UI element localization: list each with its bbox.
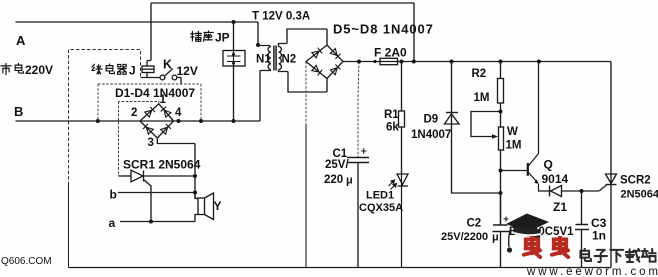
svg-text:R2: R2 — [472, 68, 487, 80]
svg-text:F 2A0: F 2A0 — [374, 46, 407, 60]
svg-text:μ: μ — [492, 232, 499, 244]
junction switch drop on line B — [199, 119, 203, 123]
svg-text:T 12V 0.3A: T 12V 0.3A — [252, 11, 310, 23]
junction at bridge node 4 — [177, 119, 181, 123]
wire mains line B — [16, 71, 272, 122]
svg-text:1n: 1n — [592, 229, 606, 243]
wire after switch K — [177, 78, 181, 84]
svg-text:1M: 1M — [474, 92, 490, 104]
junction rail R1 — [400, 60, 404, 64]
junction rail Q collector — [537, 60, 541, 64]
bridge rectifier D5-D8 diamond — [306, 45, 343, 79]
wire left drop to line B — [97, 84, 99, 121]
diode D3 bottom-left of bridge — [143, 124, 153, 134]
svg-text:25V/2200: 25V/2200 — [441, 231, 488, 243]
svg-text:a: a — [109, 216, 116, 230]
speaker Y — [195, 193, 214, 220]
svg-text:W: W — [507, 126, 518, 138]
diode D7 bottom-left of bridge2 — [312, 65, 322, 75]
ground rail — [69, 267, 612, 269]
bridge rectifier D1-D4 diamond — [140, 104, 174, 138]
svg-text:R1: R1 — [384, 109, 399, 121]
diode D9 — [445, 62, 501, 194]
svg-text:9014: 9014 — [542, 172, 569, 186]
resistor R2 — [498, 62, 504, 128]
wire node a line — [120, 215, 198, 222]
zener Z1 — [550, 185, 607, 197]
svg-text:μ: μ — [346, 175, 353, 187]
diode D6 top-right of bridge2 — [330, 48, 340, 58]
capacitor C3 — [575, 191, 589, 268]
svg-text:C2: C2 — [467, 218, 482, 230]
LED1 — [397, 174, 408, 268]
junction D9-C2 node — [499, 191, 503, 195]
watermark graduation cap — [506, 214, 549, 253]
wire node 3 to cathode rail — [157, 138, 195, 199]
wire N2 top to bridge2 — [279, 29, 328, 46]
junction socket drop on line B — [232, 119, 236, 123]
svg-text:Y: Y — [214, 199, 222, 213]
label relay J — [92, 64, 126, 74]
diode D4 bottom-right of bridge — [161, 124, 171, 134]
thyristor SCR2 — [606, 62, 617, 268]
junction rail C1 — [357, 60, 361, 64]
svg-text:LED1: LED1 — [366, 190, 394, 202]
svg-text:JP: JP — [215, 31, 230, 45]
svg-text:SCR1 2N5064: SCR1 2N5064 — [123, 158, 201, 172]
junction Q base node — [499, 169, 503, 173]
enclosure dashed box — [69, 50, 141, 268]
junction node a gate — [149, 220, 153, 224]
transistor Q — [528, 62, 550, 192]
junction rail top feed — [412, 60, 416, 64]
svg-text:CQX35A: CQX35A — [359, 202, 403, 214]
svg-text:D9: D9 — [424, 114, 439, 126]
svg-text:1M: 1M — [506, 140, 522, 152]
svg-text:K: K — [163, 58, 172, 72]
svg-text:2: 2 — [131, 107, 137, 119]
svg-text:Q: Q — [544, 158, 553, 172]
svg-text:B: B — [14, 104, 23, 119]
resistor R1 — [399, 62, 405, 175]
svg-text:12V: 12V — [177, 64, 198, 78]
svg-text:SCR2: SCR2 — [620, 175, 651, 187]
label mains 220V — [1, 63, 23, 74]
wire +12V rail — [343, 61, 611, 63]
svg-text:6k: 6k — [386, 122, 399, 134]
svg-text:4: 4 — [175, 107, 182, 119]
capacitor C1 — [347, 62, 369, 268]
wire N2 bottom to bridge2 — [279, 70, 328, 92]
svg-text:A: A — [16, 33, 26, 48]
junction SCR1 cathode node — [193, 174, 197, 178]
wire bridge2 minus to ground — [305, 62, 307, 126]
relay coil J — [142, 66, 154, 73]
diode D5 top-left of bridge2 — [312, 48, 322, 58]
wire node 1 to SCR1 anode — [119, 102, 159, 177]
junction rail fuse left — [373, 60, 376, 63]
label socket JP — [191, 31, 214, 41]
junction rail D9 — [450, 60, 454, 64]
svg-text:D5~D8 1N4007: D5~D8 1N4007 — [333, 22, 434, 37]
wire relay coil bottom — [141, 73, 161, 78]
wire top 12V rail — [151, 3, 414, 62]
svg-text:N2: N2 — [282, 54, 297, 66]
junction node b — [193, 191, 197, 195]
svg-text:N1: N1 — [256, 54, 271, 66]
svg-text:1N4007: 1N4007 — [411, 129, 451, 141]
svg-text:1: 1 — [160, 94, 167, 106]
junction Z1-C3-gate node — [580, 189, 584, 193]
socket JP — [223, 51, 245, 67]
switch K — [160, 69, 177, 80]
potentiometer W — [471, 112, 504, 226]
wire socket drop to B — [233, 66, 235, 121]
wire base of Q — [501, 170, 528, 172]
svg-text:25V/: 25V/ — [325, 159, 349, 171]
junction rail R2 — [499, 60, 503, 64]
core — [274, 46, 276, 71]
winding N2 — [279, 46, 282, 69]
svg-text:3: 3 — [148, 137, 154, 149]
svg-text:J: J — [129, 64, 136, 78]
junction on line B left — [96, 119, 100, 123]
svg-text:220: 220 — [324, 174, 343, 186]
SCR1 — [119, 170, 196, 221]
watermark site name — [580, 249, 656, 262]
svg-text:www.eeworm.com: www.eeworm.com — [526, 266, 658, 277]
wire under relay to line B — [98, 84, 201, 121]
svg-text:Z1: Z1 — [553, 200, 567, 214]
wire node b line — [118, 192, 195, 194]
transformer T — [268, 29, 327, 92]
svg-text:220V: 220V — [25, 63, 53, 77]
diode D1 top-left of bridge — [145, 107, 155, 117]
junction on line A to socket — [232, 20, 236, 24]
wire socket drop from A — [233, 22, 235, 51]
capacitor C2 — [493, 193, 510, 268]
fuse F — [380, 58, 398, 64]
diode D2 top-right of bridge — [161, 107, 171, 117]
junction R2-W wiper — [499, 110, 503, 114]
junction line A to N1 — [256, 43, 260, 47]
svg-text:2N5064: 2N5064 — [621, 189, 658, 201]
wire relay coil top jog — [147, 61, 151, 67]
watermark chongchong red — [524, 236, 568, 257]
svg-text:D1-D4 1N4007: D1-D4 1N4007 — [115, 86, 195, 100]
svg-text:Q606.COM: Q606.COM — [1, 256, 52, 267]
diode D8 bottom-right of bridge2 — [330, 64, 340, 74]
winding N1 — [268, 46, 271, 69]
svg-text:b: b — [110, 188, 117, 202]
wire mains line A — [16, 22, 271, 46]
